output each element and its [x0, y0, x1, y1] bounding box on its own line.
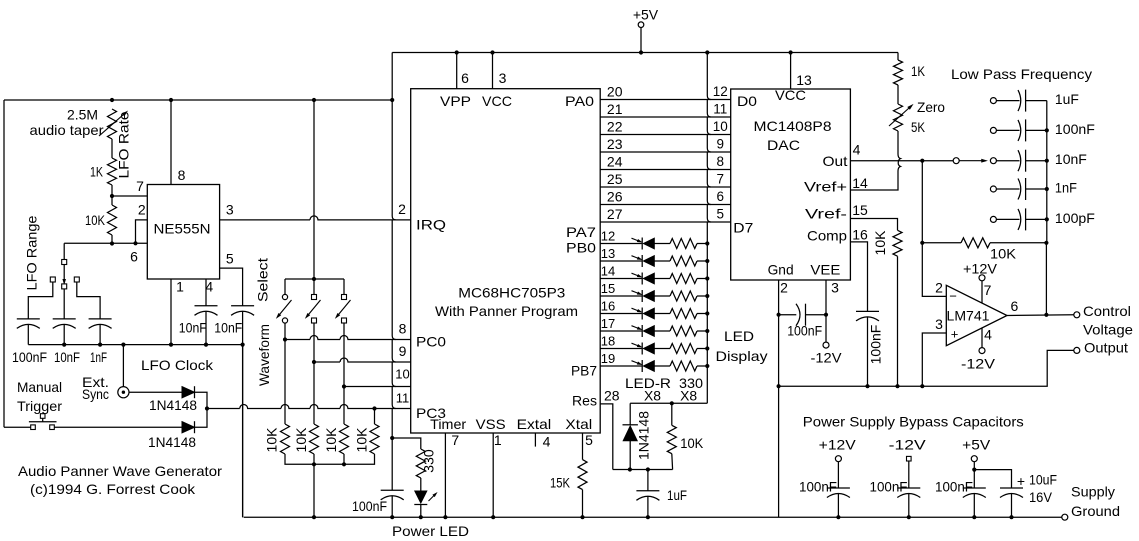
wire opamp v- pin [981, 328, 983, 348]
wire lpf bus [1046, 101, 1048, 243]
svg-text:4: 4 [853, 142, 861, 158]
wire 10K top [111, 196, 113, 205]
terminal +12V opamp [979, 275, 985, 281]
wire comp stub [850, 242, 867, 312]
svg-text:5: 5 [585, 432, 593, 448]
svg-text:1uF: 1uF [1055, 91, 1079, 107]
svg-text:2: 2 [138, 202, 146, 218]
junction +5V bus [972, 515, 976, 519]
LED row pin 15 [600, 290, 709, 302]
svg-text:8: 8 [717, 154, 725, 169]
svg-text:Gnd: Gnd [768, 262, 794, 278]
wire 555 pin1 ground [170, 279, 172, 345]
junction reset diode [628, 467, 632, 471]
connector Ext Sync [118, 387, 129, 398]
wire top-left +5V branch [391, 53, 393, 101]
svg-text:Low Pass Frequency: Low Pass Frequency [951, 66, 1092, 82]
svg-text:Ground: Ground [1071, 503, 1120, 519]
svg-text:3: 3 [226, 202, 234, 218]
svg-text:27: 27 [607, 206, 623, 222]
capacitor 1nF lpf [990, 178, 1046, 200]
svg-text:Display: Display [716, 348, 768, 364]
svg-text:26: 26 [607, 189, 623, 205]
wire pd ground drop [313, 464, 315, 517]
junction timer bus [443, 515, 447, 519]
svg-text:15K: 15K [550, 475, 571, 491]
svg-text:MC1408P8: MC1408P8 [754, 118, 832, 134]
svg-text:1K: 1K [911, 63, 926, 79]
wire row PC0 [285, 336, 411, 340]
diode D3 1N4148 reset [623, 424, 638, 426]
svg-text:+12V: +12V [963, 261, 998, 277]
capacitor 10uF [1000, 487, 1023, 489]
switch SW1 arrow [280, 300, 292, 315]
svg-text:-12V: -12V [889, 436, 927, 452]
junction gnd cap [777, 313, 781, 317]
svg-text:+: + [1017, 473, 1025, 489]
junction pot top [110, 98, 114, 102]
svg-text:1N4148: 1N4148 [149, 397, 197, 413]
svg-text:Control: Control [1083, 303, 1131, 319]
wire +12V cap [837, 462, 839, 488]
capacitor 100nF dac bypass [779, 314, 797, 316]
wire trigger row [4, 426, 31, 428]
svg-text:10K: 10K [323, 427, 339, 453]
wire sw1 down [284, 323, 286, 424]
junction sw3 row10 [342, 384, 346, 388]
svg-text:6: 6 [717, 189, 725, 204]
svg-text:16: 16 [852, 227, 868, 243]
junction pd at bus [312, 515, 316, 519]
resistor 15K [578, 460, 587, 490]
svg-text:Timer: Timer [430, 416, 466, 432]
junction +5V rail / VCC [490, 50, 494, 54]
svg-text:Res: Res [572, 393, 597, 409]
junction +12V bus [836, 515, 840, 519]
svg-text:14: 14 [852, 175, 868, 191]
svg-text:MC68HC705P3: MC68HC705P3 [458, 284, 565, 300]
svg-text:24: 24 [607, 154, 623, 170]
wire opamp output [1007, 314, 1074, 317]
svg-text:Supply: Supply [1071, 484, 1115, 500]
wire 555 pin2 stub [136, 220, 148, 243]
junction +5V rail / VPP [455, 50, 459, 54]
selector arrow [959, 160, 983, 162]
junction feedback node [920, 241, 924, 245]
svg-text:12: 12 [601, 229, 615, 244]
resistor R 1K [108, 158, 117, 185]
svg-text:100nF: 100nF [352, 498, 387, 514]
junction output node [1044, 313, 1048, 317]
junction +5V rail / DAC VCC [789, 50, 793, 54]
wire 5K to vref+ [850, 131, 900, 190]
svg-text:10K: 10K [293, 427, 309, 453]
junction +5V branch [972, 468, 976, 472]
svg-text:PB0: PB0 [566, 240, 596, 256]
wire throw right to cap3 [77, 282, 100, 319]
junction 10K vref gnd [895, 384, 899, 388]
svg-text:7: 7 [717, 171, 725, 186]
wire 1K to 5K [897, 85, 899, 104]
svg-text:VSS: VSS [476, 416, 506, 432]
resistor 10K pulldown 4 [370, 424, 379, 454]
capacitor 100nF power [381, 489, 404, 491]
wire bottom bus [244, 516, 1062, 518]
wire -12V cap [908, 461, 910, 488]
wire DAC VCC stub [790, 53, 792, 90]
svg-text:22: 22 [607, 119, 623, 135]
potentiometer 2.5M LFO Rate [108, 109, 117, 139]
wire Extal stub [534, 433, 536, 447]
svg-text:10K: 10K [85, 212, 106, 228]
junction led bus [419, 515, 423, 519]
diode D1 1N4148 [182, 387, 195, 398]
svg-text:10nF: 10nF [179, 320, 207, 336]
wire cap power to bus [391, 496, 393, 517]
junction +5V rail / LED feed [705, 50, 709, 54]
svg-text:6: 6 [1011, 298, 1019, 314]
wire Xtal pin [582, 433, 584, 460]
terminal +5V ps [971, 456, 977, 462]
svg-text:DAC: DAC [767, 137, 800, 153]
op-amp U2 LM741 [946, 285, 1007, 345]
wire cap1 to bus [27, 325, 29, 345]
wire +12V cap gnd [837, 494, 839, 518]
svg-text:13: 13 [796, 72, 812, 88]
junction lpf [1045, 217, 1049, 221]
wire trigger to diode2 [54, 426, 182, 428]
LED row pin 19 [600, 360, 709, 372]
terminal control voltage [1074, 312, 1080, 318]
wire led to bus [420, 505, 422, 518]
svg-text:16: 16 [601, 299, 615, 314]
svg-text:PA0: PA0 [565, 93, 594, 109]
svg-text:15: 15 [852, 202, 868, 218]
junction row11 pulldown [372, 406, 376, 410]
svg-text:Waveform: Waveform [256, 324, 272, 386]
svg-text:+12V: +12V [819, 436, 857, 452]
junction reset 10K top [670, 401, 674, 405]
svg-text:1nF: 1nF [1055, 180, 1077, 196]
svg-text:4: 4 [543, 434, 551, 450]
svg-text:3: 3 [935, 316, 943, 332]
junction capbus 2 [98, 343, 102, 347]
wire switch feed vertical [313, 100, 315, 279]
svg-text:20: 20 [607, 84, 623, 100]
switch SW2 terminals [312, 295, 317, 300]
svg-text:Manual: Manual [17, 379, 62, 395]
capacitor 100nF range [17, 318, 40, 320]
svg-text:12: 12 [713, 84, 728, 99]
wire DAC out [850, 160, 953, 162]
resistor 10K pulldown 1 [281, 424, 290, 454]
svg-text:21: 21 [607, 101, 623, 117]
svg-text:330: 330 [421, 449, 437, 473]
svg-text:100nF: 100nF [870, 478, 908, 494]
svg-text:-12V: -12V [961, 356, 996, 372]
wire sw2 stub [313, 279, 315, 294]
IC U1 MC68HC705P3 box [411, 89, 601, 433]
junction feedback right [1044, 241, 1048, 245]
svg-text:VCC: VCC [775, 87, 806, 103]
svg-text:LM741: LM741 [947, 308, 990, 324]
svg-text:9: 9 [717, 136, 725, 151]
svg-text:8: 8 [399, 321, 407, 337]
svg-text:Power Supply Bypass Capacitors: Power Supply Bypass Capacitors [803, 414, 1024, 430]
svg-text:6: 6 [130, 249, 138, 265]
terminal -12V opamp [979, 348, 985, 354]
wire PA0 to D0 [600, 99, 731, 101]
svg-text:Select: Select [255, 258, 271, 302]
svg-text:11: 11 [713, 101, 727, 116]
wire comp cap to gnd [867, 317, 869, 386]
svg-text:1nF: 1nF [90, 349, 107, 365]
junction pd2 bottom [312, 462, 316, 466]
junction sw2 row9 [312, 360, 316, 364]
switch LFO Range throw mid [62, 284, 67, 289]
wire 555 pin3 output [220, 216, 411, 220]
wire ni input [922, 333, 946, 386]
svg-text:100nF: 100nF [799, 478, 837, 494]
svg-text:10uF: 10uF [1029, 471, 1057, 487]
wire +5V cap gnd [973, 494, 975, 518]
junction lpf [1045, 159, 1049, 163]
junction gnd bus start [777, 384, 781, 388]
wire PA6 to D6 [600, 204, 731, 206]
svg-text:Xtal: Xtal [565, 416, 592, 432]
svg-text:100nF: 100nF [868, 325, 884, 365]
wire VCC stub [492, 53, 494, 89]
svg-text:With Panner Program: With Panner Program [435, 303, 578, 319]
terminal -12V ps [907, 456, 912, 461]
svg-text:28: 28 [604, 388, 620, 404]
wire Timer pin [444, 433, 446, 517]
svg-text:1: 1 [494, 432, 502, 448]
svg-text:4: 4 [984, 327, 992, 343]
wire sync to diode [129, 391, 182, 393]
pushbutton Manual Trigger [31, 425, 36, 430]
wire +5V reset top [630, 402, 707, 404]
junction lpf [1045, 128, 1049, 132]
wire cap5 ground drop [242, 312, 244, 518]
wire cap4 to gnd [205, 312, 207, 345]
wire PA2 to D2 [600, 134, 731, 136]
wire reset bottom [613, 469, 673, 471]
wire 1uF to bus [647, 496, 649, 517]
svg-text:100nF: 100nF [935, 478, 973, 494]
terminal output return [1074, 347, 1080, 353]
wire reset 10K [671, 403, 673, 425]
resistor 10K vref [893, 230, 902, 256]
svg-text:audio taper: audio taper [30, 122, 104, 138]
svg-text:−: − [949, 289, 957, 304]
potentiometer 5K Zero [894, 104, 903, 131]
svg-text:2: 2 [398, 201, 406, 217]
svg-text:1N4148: 1N4148 [636, 411, 652, 460]
capacitor 100nF +12V [827, 487, 850, 489]
capacitor 100pF lpf [990, 208, 1046, 230]
svg-text:(c)1994 G. Forrest Cook: (c)1994 G. Forrest Cook [30, 481, 196, 497]
switch LFO Range wiper arrow [63, 265, 65, 280]
svg-text:6: 6 [461, 70, 469, 86]
capacitor 100nF +5V [963, 487, 986, 489]
wire opamp v+ pin [981, 281, 983, 303]
svg-text:10: 10 [713, 119, 728, 134]
svg-text:VPP: VPP [440, 93, 471, 109]
terminal out end [953, 158, 959, 164]
wire +5V cap [973, 462, 975, 488]
svg-text:LFO Range: LFO Range [24, 215, 40, 290]
junction diode node [205, 406, 209, 410]
svg-text:25: 25 [607, 171, 623, 187]
svg-text:14: 14 [601, 264, 615, 279]
svg-text:100nF: 100nF [1055, 121, 1095, 137]
wire 1K to node7 [111, 185, 113, 196]
svg-text:8: 8 [178, 167, 186, 183]
svg-text:100nF: 100nF [12, 349, 47, 365]
junction comp gnd [865, 384, 869, 388]
svg-text:+5V: +5V [633, 7, 659, 23]
svg-text:100nF: 100nF [787, 323, 822, 339]
wire feedback down [1045, 243, 1047, 315]
junction lpf [1045, 187, 1049, 191]
svg-text:9: 9 [399, 343, 407, 359]
svg-text:Out: Out [823, 153, 848, 169]
junction opamp+ gnd [920, 384, 924, 388]
svg-text:10K: 10K [680, 435, 704, 451]
svg-text:PB7: PB7 [571, 363, 597, 379]
junction out node [920, 159, 924, 163]
junction 555 pin8 feed [169, 98, 173, 102]
capacitor 10nF pin5 [231, 305, 254, 307]
svg-text:7: 7 [136, 178, 144, 194]
junction switch feed [312, 277, 316, 281]
wire row PC3 from diodes [207, 405, 411, 409]
capacitor 10nF range [53, 318, 76, 320]
svg-text:3: 3 [831, 280, 839, 296]
svg-text:NE555N: NE555N [154, 220, 211, 236]
capacitor 1uF lpf [990, 90, 1046, 112]
wire throw left to cap1 [28, 282, 53, 319]
wire reset cap drop [647, 470, 649, 491]
svg-text:Sync: Sync [82, 386, 109, 402]
junction switch feed [312, 98, 316, 102]
LED row pin 16 [600, 308, 709, 320]
junction vee cap [824, 313, 828, 317]
svg-text:10nF: 10nF [1055, 151, 1087, 167]
wire node7 to 555 pin7 [112, 195, 147, 197]
capacitor 1nF range [89, 318, 112, 320]
wire PA3 to D3 [600, 151, 731, 153]
wire +5V terminal to rail [640, 28, 642, 53]
wire 10uF gnd [1011, 494, 1013, 518]
junction cap power bus [390, 515, 394, 519]
capacitor 100nF lpf [990, 119, 1046, 141]
diode D2 1N4148 [182, 422, 195, 433]
+5V terminal [638, 22, 644, 28]
wire vref- stub [850, 219, 897, 231]
junction cell column feed [390, 98, 394, 102]
wire pd3 bottom [343, 454, 345, 464]
wire upper ground bus [779, 350, 1074, 386]
junction vss bus [491, 515, 495, 519]
resistor 1K ref [894, 60, 903, 85]
capacitor 10nF lpf [990, 150, 1046, 172]
wire 10uF branch [974, 470, 1011, 488]
wire 10K bottom [111, 235, 113, 244]
LED power [415, 491, 427, 503]
junction pd3 bottom [342, 462, 346, 466]
svg-text:Voltage: Voltage [1083, 321, 1133, 337]
wire feedback [922, 242, 961, 244]
wire pd4 top [374, 409, 376, 425]
wire VSS pin [492, 433, 494, 517]
wire cap to vee [806, 314, 827, 316]
svg-text:1: 1 [176, 279, 184, 295]
svg-text:1K: 1K [90, 164, 104, 180]
junction power led branch [390, 436, 394, 440]
junction 10K bottom [110, 241, 114, 245]
svg-text:13: 13 [601, 246, 615, 261]
svg-text:IRQ: IRQ [416, 217, 446, 233]
svg-text:+: + [951, 327, 959, 342]
svg-text:3: 3 [499, 70, 507, 86]
junction capbus cap4 [204, 343, 208, 347]
wire DAC vee pin [825, 280, 827, 342]
svg-text:15: 15 [601, 281, 615, 296]
svg-text:VEE: VEE [810, 262, 840, 278]
wire sw1 stub [284, 279, 286, 294]
resistor 330 power led [416, 449, 425, 478]
svg-text:Output: Output [1084, 340, 1128, 356]
switch SW2 arrow [309, 300, 321, 315]
wire left cell column +5V [392, 100, 396, 409]
svg-text:LFO Clock: LFO Clock [141, 357, 214, 373]
LED row pin 17 [600, 325, 709, 337]
junction 15K bus [580, 515, 584, 519]
wire cap3 to bus [99, 325, 101, 345]
svg-text:7: 7 [451, 432, 459, 448]
wire DAC gnd pin [778, 280, 780, 517]
wire reset diode branch [629, 403, 631, 425]
junction capbus 1 [62, 343, 66, 347]
svg-text:Audio Panner Wave Generator: Audio Panner Wave Generator [18, 463, 222, 479]
svg-text:17: 17 [601, 316, 615, 331]
wire VPP stub [456, 53, 458, 89]
wire PA5 to D5 [600, 186, 731, 188]
wire PA1 to D1 [600, 116, 731, 118]
svg-text:VCC: VCC [482, 93, 512, 109]
svg-text:2: 2 [780, 280, 788, 296]
svg-text:16V: 16V [1029, 489, 1053, 505]
svg-text:Vref-: Vref- [805, 206, 847, 222]
switch SW3 arrow [339, 300, 351, 315]
node pin7 junction [110, 194, 114, 198]
wire diode2 to node [195, 409, 208, 428]
wire rail to 1K [897, 53, 899, 61]
capacitor 100nF -12V [897, 487, 920, 489]
resistor R 10K [108, 205, 117, 235]
wire out to inv [922, 161, 946, 297]
wire pd2 bottom [313, 454, 315, 464]
wire 330 to led [420, 478, 422, 491]
svg-text:10: 10 [395, 367, 409, 382]
IC U3 MC1408P8 box [731, 89, 851, 280]
svg-text:Trigger: Trigger [17, 398, 62, 414]
wire left rail [3, 100, 5, 427]
wire left ground drop [242, 345, 244, 518]
svg-text:10K: 10K [264, 427, 280, 453]
